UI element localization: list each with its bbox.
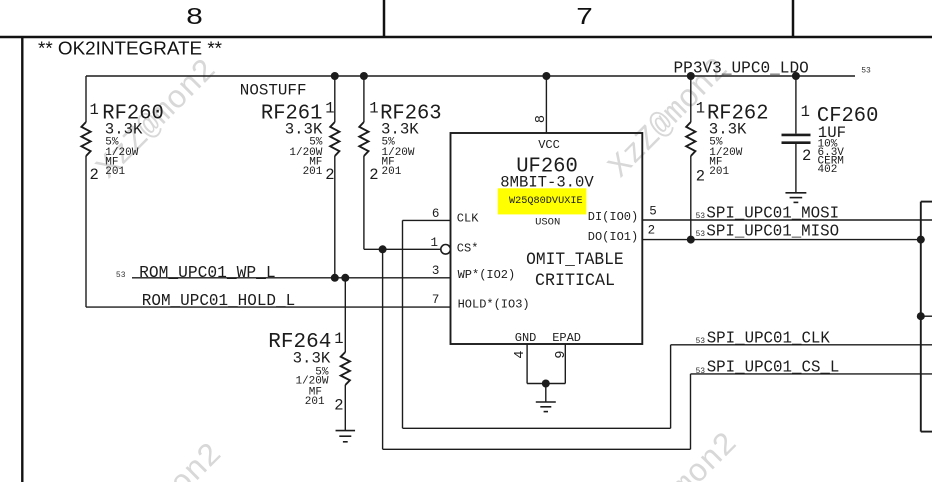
svg-text:2: 2 [325,166,334,184]
svg-text:3.3K: 3.3K [709,120,747,138]
svg-text:GND: GND [515,331,537,345]
svg-text:53: 53 [696,367,706,376]
svg-text:7: 7 [576,3,593,29]
svg-text:3.3K: 3.3K [285,120,323,138]
svg-text:201: 201 [305,396,325,408]
svg-text:3.3K: 3.3K [381,120,419,138]
svg-text:** OK2INTEGRATE **: ** OK2INTEGRATE ** [38,38,222,59]
svg-text:1: 1 [696,100,705,118]
svg-text:1: 1 [801,103,810,121]
svg-text:2: 2 [334,396,343,414]
svg-text:SPI_UPC01_MISO: SPI_UPC01_MISO [706,223,839,241]
svg-text:ROM_UPC01_WP_L: ROM_UPC01_WP_L [139,264,276,282]
svg-text:1: 1 [325,100,334,118]
svg-text:W25Q80DVUXIE: W25Q80DVUXIE [509,195,583,207]
svg-text:8MBIT-3.0V: 8MBIT-3.0V [500,173,594,191]
svg-text:2: 2 [696,167,705,185]
svg-text:201: 201 [709,166,729,178]
svg-text:6: 6 [432,207,440,221]
svg-text:CLK: CLK [457,211,479,225]
svg-text:HOLD*(IO3): HOLD*(IO3) [458,298,530,312]
svg-text:1: 1 [430,236,438,250]
svg-text:WP*(IO2): WP*(IO2) [458,268,516,282]
svg-text:53: 53 [116,271,126,280]
svg-text:53: 53 [861,67,871,76]
svg-text:ROM_UPC01_HOLD_L: ROM_UPC01_HOLD_L [142,292,295,310]
svg-text:2: 2 [648,223,656,237]
svg-text:EPAD: EPAD [552,331,581,345]
svg-text:OMIT_TABLE: OMIT_TABLE [526,250,624,270]
svg-text:201: 201 [303,166,323,178]
svg-text:53: 53 [696,230,706,239]
svg-text:3: 3 [432,264,440,278]
svg-text:1: 1 [369,100,378,118]
svg-text:NOSTUFF: NOSTUFF [240,82,307,100]
svg-text:DO(IO1): DO(IO1) [588,230,638,244]
svg-text:201: 201 [382,166,402,178]
svg-text:8: 8 [534,115,549,123]
svg-text:4: 4 [513,351,528,359]
svg-text:8: 8 [186,3,203,29]
svg-text:SPI_UPC01_MOSI: SPI_UPC01_MOSI [706,205,839,223]
svg-text:VCC: VCC [538,138,560,152]
svg-text:5: 5 [649,205,657,219]
svg-text:2: 2 [90,166,99,184]
svg-text:DI(IO0): DI(IO0) [588,210,638,224]
svg-text:9: 9 [554,351,569,359]
svg-text:53: 53 [696,337,706,346]
svg-text:SPI_UPC01_CS_L: SPI_UPC01_CS_L [707,359,840,377]
svg-text:3.3K: 3.3K [293,349,331,367]
svg-text:1: 1 [90,101,99,119]
svg-text:1: 1 [334,330,343,348]
svg-text:2: 2 [369,166,378,184]
svg-text:CS*: CS* [457,242,479,256]
svg-text:2: 2 [802,147,811,165]
svg-text:CRITICAL: CRITICAL [535,271,615,291]
svg-text:53: 53 [696,212,706,221]
svg-text:402: 402 [818,164,838,176]
svg-text:PP3V3_UPC0_LDO: PP3V3_UPC0_LDO [674,60,809,78]
svg-text:USON: USON [535,217,560,229]
svg-text:201: 201 [105,166,125,178]
svg-text:SPI_UPC01_CLK: SPI_UPC01_CLK [707,329,830,347]
svg-text:3.3K: 3.3K [105,120,143,138]
svg-text:7: 7 [432,293,440,307]
